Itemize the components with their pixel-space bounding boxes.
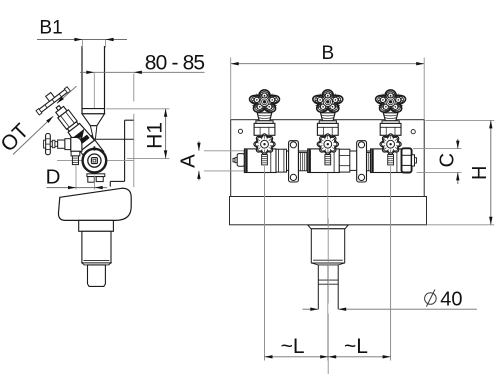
bracket plate (124, 120, 126, 181)
dimension diameter 40 (303, 308, 319, 310)
station 1 flange disc (256, 121, 273, 124)
station 1 front valve handwheel (254, 134, 275, 155)
valve packing nut (56, 106, 67, 116)
back plate (231, 120, 425, 197)
ribbed coupling 1 (299, 153, 307, 171)
dimension H1 ext lines (106, 108, 170, 110)
svg-text:80 - 85: 80 - 85 (145, 51, 205, 74)
dimension H ext lines (426, 119, 495, 121)
svg-text:B: B (322, 43, 335, 64)
valve outlet elbow (77, 136, 104, 163)
bottom flange (308, 225, 348, 229)
hex nut 1 (276, 149, 287, 172)
hex nut 2 (339, 149, 350, 172)
svg-text:H1: H1 (143, 122, 166, 149)
svg-text:D: D (46, 166, 61, 189)
valve stem (56, 106, 61, 111)
svg-text:A: A (177, 154, 200, 168)
pipe collar (82, 108, 105, 110)
station 3 bonnet (380, 123, 401, 135)
pipe centerline (93, 73, 95, 108)
gauge stem stub (93, 146, 95, 150)
lower pipe centerline (327, 219, 329, 304)
small valve stem (50, 142, 57, 147)
station 2 flange disc (319, 121, 336, 124)
lower pipe wide (311, 229, 344, 263)
body shoulder (58, 188, 131, 220)
svg-text:~L: ~L (281, 335, 305, 358)
dimension H1 (165, 109, 167, 159)
dimension OT line upper (57, 86, 77, 103)
station 3 handwheel (376, 90, 406, 112)
svg-text:40: 40 (440, 288, 462, 310)
dimension OT line lower (13, 116, 53, 154)
plate hole right (411, 130, 415, 134)
small valve hex (71, 151, 80, 156)
station 2 handwheel (313, 90, 343, 112)
valve transition (67, 122, 78, 132)
dimension ~L chain (264, 166, 266, 361)
base block (230, 197, 427, 225)
manifold pipe (continuous behind parts) (244, 151, 411, 170)
cylinder (82, 231, 111, 263)
lower pipe narrow (318, 265, 338, 309)
station 1 handwheel (250, 90, 280, 112)
valve station 2 body (308, 149, 340, 173)
pipe clamp 2 (357, 141, 367, 182)
station 3 stem neck (383, 113, 398, 121)
dimension C ext lines (413, 148, 462, 150)
station 1 stem neck (257, 113, 272, 121)
small valve handwheel (46, 134, 51, 155)
plate hole left (238, 129, 242, 133)
valve handwheel bar (38, 88, 69, 113)
station 2 front valve handwheel (317, 134, 338, 155)
svg-text:C: C (436, 153, 458, 167)
station 1 bonnet (254, 123, 275, 135)
dimension C (457, 139, 459, 149)
dimension D ext lines (75, 166, 77, 190)
pipe taper nozzle (82, 114, 105, 126)
station 2 front valve stem (325, 155, 331, 165)
station 2 bonnet (317, 123, 338, 135)
dimension D (47, 187, 108, 189)
manifold A extension lines (204, 150, 245, 152)
valve station 1 body (244, 149, 276, 173)
manifold right hex cap (402, 148, 412, 172)
angled valve group (33, 83, 112, 170)
valve stem tip (46, 93, 55, 102)
station 3 flange disc (382, 121, 399, 124)
wall line (133, 74, 135, 102)
main axis centerline (57, 159, 82, 161)
pipe clamp 1 (289, 141, 299, 182)
small valve packing (58, 140, 65, 148)
station 2 stem neck (321, 113, 336, 121)
dimension H (490, 120, 492, 224)
right cap stub (412, 155, 415, 166)
gauge body circle (83, 149, 107, 173)
small valve threaded nipple (72, 156, 78, 165)
station 3 front valve stem (388, 155, 394, 165)
station 1 front valve stem (262, 155, 268, 165)
station 3 front valve handwheel (380, 134, 401, 155)
valve logo N (74, 131, 88, 145)
dimension B1 (37, 39, 127, 41)
manifold left cap (237, 154, 244, 167)
valve body (67, 122, 95, 151)
flange (79, 220, 114, 231)
lower cylinder (88, 265, 106, 287)
svg-text:H: H (469, 166, 491, 180)
vertical pipe (82, 41, 105, 114)
dimension 80-85 (80, 71, 205, 73)
dimension A (198, 141, 200, 151)
label diameter 40 (425, 290, 437, 307)
dimension B line (231, 63, 425, 65)
valve station 3 body (371, 149, 403, 173)
valve bonnet (58, 110, 77, 130)
nuts under gauge (87, 174, 105, 177)
svg-text:B1: B1 (39, 18, 62, 39)
small valve elbow (71, 137, 82, 151)
station centerlines (264, 121, 266, 361)
manifold left stub (233, 158, 235, 162)
svg-text:~L: ~L (344, 335, 368, 358)
ribbed coupling 2 (367, 153, 375, 171)
